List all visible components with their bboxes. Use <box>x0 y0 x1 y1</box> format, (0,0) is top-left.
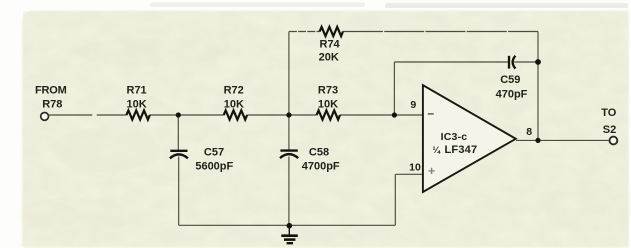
wire C59 branch left segment <box>394 61 508 63</box>
svg-text:20K: 20K <box>319 52 339 64</box>
capacitor C58 <box>280 146 340 172</box>
node B (R72/R73/R74/C58 junction) <box>286 112 291 117</box>
svg-text:LF347: LF347 <box>445 144 478 156</box>
wire C59 to node D <box>514 61 538 63</box>
svg-text:5600pF: 5600pF <box>195 160 233 172</box>
node F (ground junction) <box>287 223 293 229</box>
wire R74 to right feedback drop <box>343 31 538 33</box>
wire R72 to node B <box>247 114 316 116</box>
svg-text:C59: C59 <box>500 74 520 86</box>
svg-text:FROM: FROM <box>35 85 67 97</box>
wire node B up to feedback rail <box>288 32 290 116</box>
plus sign pin 10 <box>429 168 435 174</box>
wire node C up to C59 branch <box>393 62 395 115</box>
svg-text:S2: S2 <box>603 124 616 136</box>
node D (C59/feedback junction) <box>535 59 541 65</box>
terminal FROM R78 <box>35 85 67 121</box>
svg-text:R72: R72 <box>224 85 244 97</box>
wire op-amp pin 10 horizontal <box>395 173 423 175</box>
wire node A down to C57 <box>177 115 179 150</box>
wire feedback rail left segment to R74 <box>289 31 320 33</box>
wire output from op-amp to terminal <box>516 139 609 141</box>
resistor R74 <box>319 27 343 64</box>
wire right feedback drop to output node <box>537 32 539 141</box>
wire R71 to node A <box>150 114 224 116</box>
capacitor C59 <box>496 56 528 101</box>
resistor R72 <box>224 85 247 120</box>
svg-text:470pF: 470pF <box>496 89 528 101</box>
op-amp IC3-c <box>409 85 532 192</box>
wire C58 bottom to ground node <box>288 157 290 227</box>
wire node B down to C58 <box>288 115 290 150</box>
svg-text:10K: 10K <box>318 99 338 111</box>
svg-text:R73: R73 <box>318 85 338 97</box>
capacitor C57 <box>170 146 234 172</box>
svg-text:8: 8 <box>526 126 532 138</box>
svg-text:IC3-c: IC3-c <box>441 131 468 143</box>
minus sign pin 9 <box>428 113 434 115</box>
wire R73 to node C <box>340 114 423 116</box>
svg-text:4700pF: 4700pF <box>302 160 340 172</box>
wire C57 bottom to ground rail <box>178 157 180 226</box>
svg-text:R71: R71 <box>127 85 147 97</box>
wire ground rail <box>179 224 396 226</box>
node A (R71/R72/C57 junction) <box>176 112 181 117</box>
wire input to R71 <box>48 114 126 116</box>
resistor R71 <box>126 85 149 120</box>
resistor R73 <box>317 85 340 120</box>
svg-text:R78: R78 <box>42 99 62 111</box>
ground <box>281 227 298 243</box>
svg-text:C57: C57 <box>204 146 224 158</box>
wire pin 10 drop to ground rail <box>394 174 396 225</box>
node E (output junction) <box>535 138 540 143</box>
node C (R73/C59/pin9 junction) <box>392 112 397 117</box>
svg-text:TO: TO <box>601 107 617 119</box>
terminal TO S2 <box>601 107 617 145</box>
svg-text:10: 10 <box>409 162 421 174</box>
svg-text:C58: C58 <box>309 146 329 158</box>
svg-text:9: 9 <box>410 99 416 111</box>
svg-text:R74: R74 <box>320 39 341 51</box>
